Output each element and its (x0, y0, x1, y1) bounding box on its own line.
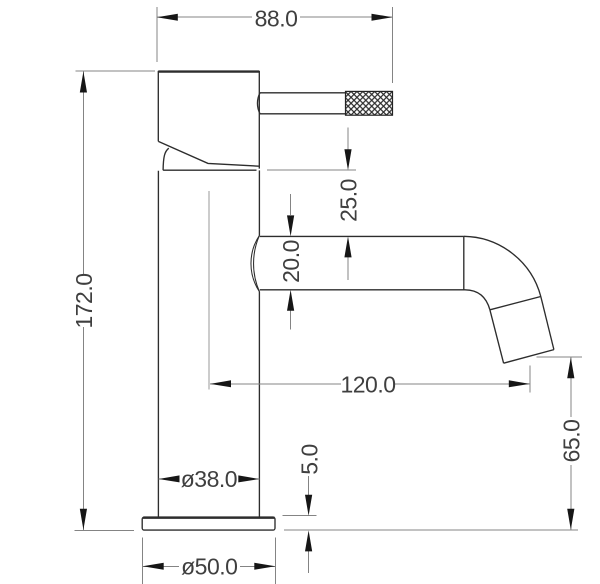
body right edge upper (258, 170, 260, 235)
arrow o50.0 left (143, 563, 164, 570)
base plate top edge thick (143, 517, 275, 519)
dim 20.0 upper leader (290, 194, 292, 215)
dim 172.0 extension bottom (74, 530, 134, 532)
dim o38.0 line (159, 478, 260, 480)
arrow o38.0 right (238, 475, 259, 482)
arrow 25.0 down (344, 149, 351, 170)
arrow 88.0 left (157, 14, 178, 21)
dim 5.0 lower leader (308, 551, 310, 573)
spout joint line 2 (490, 297, 541, 310)
handle rod cap arc (257, 93, 260, 114)
head bottom diagonal (158, 141, 259, 166)
svg-text:120.0: 120.0 (340, 371, 395, 397)
spout top edge (260, 235, 464, 237)
body top edge (163, 169, 256, 171)
dim 88.0 extension left (156, 7, 158, 62)
svg-text:88.0: 88.0 (255, 6, 298, 32)
faucet head (handle housing) (158, 72, 259, 169)
dim 25.0 upper leader (347, 128, 349, 150)
body center line (208, 191, 210, 390)
ground line (284, 529, 578, 531)
base plate (142, 517, 275, 530)
handle rod top (260, 92, 346, 94)
spout root inner arc (254, 235, 260, 291)
dim o50.0 extension right (274, 538, 276, 584)
svg-text:20.0: 20.0 (278, 240, 304, 283)
dim 120.0 line (210, 383, 530, 385)
arrow 172.0 top (80, 72, 87, 93)
svg-text:25.0: 25.0 (335, 179, 361, 222)
dim 20.0 lower leader (290, 310, 292, 329)
dim 5.0 upper leader (308, 476, 310, 495)
svg-text:ø50.0: ø50.0 (181, 554, 237, 580)
arrow o50.0 right (254, 563, 275, 570)
outlet left edge (490, 310, 504, 363)
spout outer bend (464, 236, 541, 296)
spout bottom edge (260, 289, 465, 291)
neck arc (163, 148, 169, 170)
dim 65.0 extension top (537, 356, 582, 358)
dim 172.0 extension top (76, 70, 155, 72)
outlet face (504, 350, 554, 364)
dim 5.0 extension upper (283, 514, 317, 516)
outlet right edge (541, 297, 554, 350)
spout joint line 1 (463, 236, 465, 289)
dim 88.0 line (157, 16, 393, 18)
svg-text:5.0: 5.0 (296, 444, 322, 474)
dim 172.0 line (82, 72, 84, 530)
head top edge thick (158, 70, 259, 72)
svg-text:ø38.0: ø38.0 (181, 466, 237, 492)
arrow 65.0 down (567, 509, 574, 530)
arrow 65.0 up (567, 357, 574, 378)
arrow 5.0 down (305, 495, 312, 516)
svg-text:65.0: 65.0 (558, 420, 584, 463)
dim 88.0 extension right (392, 7, 394, 83)
dim o50.0 extension left (141, 538, 143, 584)
dim 65.0 line (570, 357, 572, 530)
dim o50.0 line (143, 565, 276, 567)
spout inner bend (465, 290, 490, 310)
dim 120.0 extension right (529, 366, 531, 393)
arrow o38.0 left (159, 475, 180, 482)
arrow 120.0 left (210, 380, 231, 387)
handle rod bottom (260, 113, 346, 115)
arrow 20.0 down (287, 215, 294, 236)
body right edge lower (258, 292, 260, 517)
spout root outer arc (251, 235, 260, 291)
arrow 5.0 up (305, 530, 312, 551)
arrow 172.0 bottom (80, 509, 87, 530)
arrow 88.0 right (372, 14, 393, 21)
arrow 20.0 up (287, 290, 294, 311)
svg-text:172.0: 172.0 (71, 273, 97, 328)
knurled grip (346, 91, 393, 115)
dim 25.0 extension (267, 169, 356, 171)
arrow 25.0 up (344, 236, 351, 257)
body left edge (157, 171, 159, 517)
dim 25.0 lower leader (347, 257, 349, 280)
arrow 120.0 right (509, 380, 530, 387)
